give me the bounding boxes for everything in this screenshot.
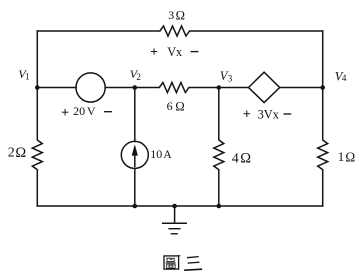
svg-text:V: V: [87, 104, 96, 118]
svg-text:3Vx: 3Vx: [258, 107, 280, 121]
svg-text:A: A: [163, 148, 172, 161]
svg-text:10: 10: [150, 147, 162, 161]
svg-text:1: 1: [338, 149, 345, 164]
svg-text:Ω: Ω: [176, 8, 185, 22]
svg-text:Vx: Vx: [167, 45, 182, 59]
svg-text:Ω: Ω: [240, 150, 251, 166]
svg-text:Ω: Ω: [345, 150, 355, 165]
svg-text:20: 20: [73, 104, 85, 118]
svg-text:3: 3: [228, 74, 233, 84]
svg-text:2: 2: [8, 146, 15, 161]
svg-text:2: 2: [136, 72, 141, 82]
svg-text:1: 1: [25, 72, 30, 82]
svg-text:3: 3: [168, 8, 174, 22]
svg-text:Ω: Ω: [175, 99, 184, 113]
svg-text:Ω: Ω: [15, 145, 26, 161]
svg-text:4: 4: [232, 151, 239, 166]
svg-text:6: 6: [167, 99, 173, 113]
svg-text:4: 4: [342, 73, 347, 83]
